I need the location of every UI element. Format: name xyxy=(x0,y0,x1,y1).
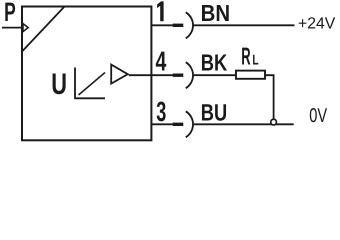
svg-text:P: P xyxy=(4,0,16,27)
svg-text:3: 3 xyxy=(156,96,166,127)
svg-text:R: R xyxy=(241,44,251,71)
svg-text:U: U xyxy=(51,68,67,101)
svg-text:BN: BN xyxy=(201,0,230,26)
svg-text:4: 4 xyxy=(156,46,167,77)
svg-text:L: L xyxy=(252,53,258,69)
svg-text:BU: BU xyxy=(201,100,227,126)
svg-text:BK: BK xyxy=(201,50,228,76)
svg-text:+24V: +24V xyxy=(298,14,336,32)
svg-text:0V: 0V xyxy=(309,105,327,127)
